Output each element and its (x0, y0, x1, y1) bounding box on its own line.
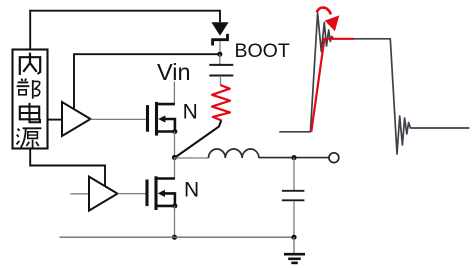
waveform: red ideal rising edge trace (311, 39, 354, 132)
wire: low-side driver input stub (71, 193, 89, 195)
transistor Q1: high-side NMOS (148, 102, 178, 136)
wire: resistor to switch node (diagonal) (175, 120, 221, 157)
wire: high-side driver output to gate (91, 118, 147, 120)
wire: supply box to high-side driver input (48, 119, 62, 121)
svg-text:Vin: Vin (157, 59, 191, 85)
node: switch node junction (172, 155, 177, 160)
op-amp: high-side gate driver buffer (62, 102, 91, 136)
svg-text:BOOT: BOOT (235, 40, 290, 62)
node: output junction (291, 155, 296, 160)
ground symbol (284, 237, 305, 263)
wire: switch node to inductor (175, 157, 209, 159)
capacitor C1: bootstrap capacitor (209, 65, 233, 76)
wire: BOOT node to bootstrap cap (219, 54, 221, 64)
wire: bootstrap cap to resistor (220, 76, 222, 85)
wire: ground rail (60, 236, 295, 238)
wire: output node down to output cap (293, 158, 295, 191)
node: ground junction (291, 235, 296, 240)
waveform: switch node voltage (black trace) (279, 13, 469, 154)
transistor Q2: low-side NMOS (147, 176, 177, 210)
label: 源 (17, 128, 42, 148)
terminal: output (open circle) (329, 153, 339, 163)
wire: low-side source to ground rail (174, 206, 176, 237)
annotation: red curved arrow over ringing (317, 8, 340, 32)
wire: switch node to low-side drain (174, 158, 176, 179)
internal supply box 内部电源 (13, 50, 48, 149)
node: BOOT junction (217, 52, 222, 57)
wire: supply box bottom to low-side driver supply (30, 149, 105, 187)
wire: inductor to output terminal (259, 157, 329, 159)
svg-text:N: N (183, 100, 198, 123)
wire: top rail from supply box to bootstrap diode (30, 11, 220, 50)
capacitor C2: output capacitor (282, 191, 305, 201)
svg-text:N: N (184, 179, 199, 202)
wire: high-side source to switch node (174, 132, 176, 158)
inductor L1 (209, 149, 259, 158)
wire: diode to BOOT node (219, 41, 221, 53)
node: low-side source ground junction (172, 235, 177, 240)
label: 部 (17, 78, 40, 98)
label: 电 (20, 103, 40, 122)
diode D1: bootstrap Schottky (211, 22, 228, 45)
resistor R1: bootstrap resistor (red) (212, 85, 230, 120)
label: 内 (20, 53, 40, 75)
wire: low-side driver output to gate (118, 193, 146, 195)
wire: output cap to ground rail (293, 201, 295, 237)
op-amp: low-side gate driver buffer (89, 177, 118, 211)
wire: Vin lead down to high-side drain (173, 82, 175, 105)
wire: BOOT node to high-side driver supply (74, 54, 219, 110)
